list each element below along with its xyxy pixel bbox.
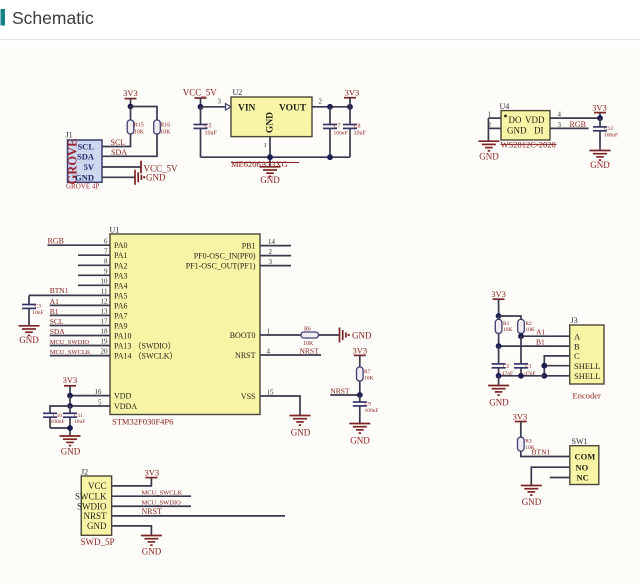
header accent bar: [1, 9, 6, 26]
svg-text:BTN1: BTN1: [50, 286, 69, 295]
svg-text:NRST: NRST: [330, 386, 350, 395]
wire pin11 BTN1: [29, 294, 110, 296]
wire R6 to ground flag: [319, 334, 340, 336]
wire pin17 SCL: [50, 325, 110, 327]
wire pin3 DI / RGB net: [550, 127, 589, 129]
wire pin20 MCU_SWCLK: [50, 355, 110, 357]
wire pin16 VDD: [70, 395, 110, 397]
svg-text:C2: C2: [503, 364, 510, 370]
power flag 3V3 (J2): [144, 467, 159, 477]
node VCC_5V/C5 junction: [198, 104, 204, 110]
power flag VCC_5V (input): [183, 87, 218, 98]
svg-text:R1: R1: [503, 321, 510, 327]
wire SHELL1 pin: [544, 365, 569, 367]
svg-text:VDD: VDD: [114, 392, 132, 401]
power flag 3V3 (pull-ups): [123, 88, 138, 99]
power flag 3V3 (U4): [592, 103, 607, 119]
capacitor C1: [514, 364, 536, 377]
svg-text:VCC: VCC: [88, 481, 107, 491]
svg-text:PA0: PA0: [114, 241, 128, 250]
node C1/rail: [518, 373, 524, 379]
ground (J2): [141, 536, 162, 557]
connector J3 body: [570, 325, 604, 384]
node GND rail / C7: [327, 154, 333, 160]
wire VOUT rail: [312, 106, 350, 108]
wire SWDIO net: [112, 505, 191, 507]
svg-text:10uF: 10uF: [354, 130, 367, 136]
svg-text:6: 6: [104, 238, 108, 246]
svg-text:STM32F030F4P6: STM32F030F4P6: [112, 417, 173, 427]
wire BTN1 net: [521, 451, 570, 456]
svg-text:MCU_SWDIO: MCU_SWDIO: [142, 500, 182, 507]
wire pin2 GND: [488, 127, 501, 129]
svg-text:J2: J2: [81, 468, 88, 477]
capacitor C12: [593, 118, 618, 150]
svg-text:GND: GND: [61, 446, 81, 456]
svg-text:GROVE 4P: GROVE 4P: [66, 182, 99, 190]
ground (encoder): [488, 386, 509, 408]
wire 5V pin: [102, 166, 141, 168]
svg-text:R7: R7: [364, 369, 371, 375]
svg-text:NRST: NRST: [142, 507, 163, 516]
wire NC stub: [550, 477, 570, 479]
svg-text:PA9: PA9: [114, 322, 128, 331]
wire 3V3 stem: [130, 99, 132, 107]
svg-text:3: 3: [558, 121, 562, 129]
svg-text:A1: A1: [536, 328, 545, 337]
svg-text:10K: 10K: [503, 327, 513, 333]
svg-text:PA6: PA6: [114, 301, 128, 310]
connector J1 body: [68, 140, 103, 182]
svg-text:GND: GND: [507, 125, 527, 135]
svg-text:10nF: 10nF: [32, 310, 43, 316]
resistor R15: [127, 120, 145, 135]
svg-text:J3: J3: [571, 316, 578, 325]
node VOUT/C7: [327, 104, 333, 110]
svg-text:4: 4: [267, 347, 271, 355]
svg-text:PA14 （SWCLK）: PA14 （SWCLK）: [114, 352, 178, 361]
svg-text:10K: 10K: [364, 375, 374, 381]
svg-text:GND: GND: [266, 112, 276, 133]
ground (VSS): [290, 416, 311, 438]
svg-text:COM: COM: [575, 452, 596, 462]
svg-text:PA4: PA4: [114, 281, 128, 290]
header divider: [0, 39, 640, 41]
svg-text:C: C: [574, 351, 580, 361]
node VDDA: [67, 403, 73, 409]
power flag 3V3 (output): [344, 87, 359, 107]
wire ground rail: [201, 156, 351, 158]
svg-text:GND: GND: [19, 335, 39, 345]
svg-text:SCL: SCL: [77, 142, 94, 152]
part label WS2812C-2020: [501, 140, 557, 150]
svg-text:MCU_SWCLK: MCU_SWCLK: [142, 490, 183, 497]
capacitor C5: [194, 107, 218, 157]
IC U2 body: [231, 97, 312, 137]
svg-text:VIN: VIN: [238, 103, 256, 113]
power flag 3V3 (SW1): [513, 411, 528, 437]
svg-text:R6: R6: [304, 327, 311, 333]
ground (C9): [349, 424, 370, 446]
svg-text:C1: C1: [525, 364, 532, 370]
svg-text:NRST: NRST: [235, 351, 256, 360]
resistor R2: [518, 319, 535, 333]
svg-text:U2: U2: [233, 88, 243, 97]
svg-text:PA10: PA10: [114, 332, 132, 341]
svg-text:3V3: 3V3: [123, 88, 138, 98]
svg-text:16: 16: [95, 388, 103, 396]
svg-text:R2: R2: [525, 321, 532, 327]
wire B1 net: [499, 333, 570, 346]
wire pin7: [78, 254, 110, 256]
node VDD: [67, 393, 73, 399]
svg-text:3V3: 3V3: [345, 87, 360, 97]
node R1/B1/C2: [496, 343, 502, 349]
wire pin9: [78, 274, 110, 276]
wire VCC to 3V3: [112, 478, 152, 486]
wire encoder ground rail: [499, 375, 545, 377]
wire BTN1 to C3: [28, 295, 30, 304]
IC U4 body: [501, 111, 550, 140]
svg-text:A1: A1: [50, 297, 59, 306]
wire VCC_5V stem: [200, 98, 202, 107]
ground (C12): [590, 151, 611, 170]
svg-text:SDA: SDA: [50, 327, 66, 336]
svg-text:J1: J1: [66, 131, 73, 140]
svg-text:R15: R15: [134, 122, 144, 128]
part label ME6206A33XG: [231, 159, 299, 169]
wire pin12 A1: [50, 304, 110, 306]
resistor R16: [154, 120, 172, 135]
svg-text:3V3: 3V3: [592, 103, 607, 113]
svg-text:VCC_5V: VCC_5V: [183, 87, 218, 97]
svg-text:B1: B1: [536, 338, 545, 347]
svg-text:3V3: 3V3: [513, 411, 528, 421]
wire C pin: [544, 356, 569, 376]
wire pin1 BOOT0: [260, 334, 301, 336]
svg-text:3: 3: [269, 258, 273, 266]
node C/SHELL1: [541, 363, 547, 369]
node R2/A1/C1: [518, 333, 524, 339]
wire NO to ground: [531, 467, 570, 485]
wire pin10: [78, 284, 110, 286]
svg-text:BOOT0: BOOT0: [230, 331, 256, 340]
ground (VDD caps): [60, 436, 81, 456]
switch SW1 body: [570, 446, 599, 485]
svg-text:GND: GND: [352, 330, 372, 340]
resistor R7: [357, 367, 374, 395]
wire GND pin (J2): [112, 526, 152, 536]
node 3V3/R15/R16 junction: [128, 104, 134, 110]
wire GND pin: [102, 176, 135, 178]
svg-text:1: 1: [264, 142, 267, 149]
wire rail to ground: [498, 376, 500, 386]
wire pin3 PF1: [260, 265, 291, 267]
svg-text:100nF: 100nF: [365, 408, 379, 414]
node cap rail: [67, 425, 73, 431]
svg-text:SWDIO: SWDIO: [77, 501, 107, 511]
ground flag GND (J1): [135, 170, 166, 185]
svg-text:PF0-OSC_IN(PF0): PF0-OSC_IN(PF0): [194, 252, 256, 261]
svg-text:VDD: VDD: [525, 115, 545, 125]
svg-text:PA13 （SWDIO）: PA13 （SWDIO）: [114, 342, 176, 351]
svg-text:VSS: VSS: [241, 392, 256, 401]
svg-text:10K: 10K: [525, 327, 535, 333]
capacitor C3: [22, 304, 44, 326]
svg-text:SHELL: SHELL: [574, 371, 600, 381]
svg-text:NRST: NRST: [83, 511, 107, 521]
wire to R15 top: [130, 107, 132, 121]
resistor R6: [301, 327, 319, 348]
wire to C10: [50, 406, 70, 413]
svg-text:GND: GND: [350, 435, 370, 445]
resistor R1: [495, 319, 512, 333]
svg-text:NO: NO: [576, 462, 589, 472]
node GND rail / U2: [267, 154, 273, 160]
wire SCL net: [102, 134, 131, 147]
ground (U2): [260, 167, 281, 185]
svg-text:RGB: RGB: [570, 120, 586, 129]
wire 3V3 to R1: [498, 316, 500, 319]
node SHELL2: [541, 373, 547, 379]
svg-text:3V3: 3V3: [491, 289, 506, 299]
svg-text:10K: 10K: [134, 129, 145, 135]
svg-text:PA5: PA5: [114, 291, 128, 300]
svg-text:BTN1: BTN1: [532, 448, 551, 457]
wire NRST net (J2): [112, 515, 285, 517]
svg-text:10: 10: [101, 278, 109, 286]
ground (C3): [19, 326, 40, 345]
svg-text:18: 18: [101, 328, 109, 336]
svg-text:GND: GND: [522, 497, 542, 507]
svg-text:2: 2: [319, 98, 323, 106]
svg-text:VOUT: VOUT: [279, 103, 307, 113]
svg-text:PA3: PA3: [114, 271, 128, 280]
svg-text:10uF: 10uF: [205, 130, 218, 136]
svg-text:19: 19: [101, 338, 109, 346]
svg-text:SCL: SCL: [111, 138, 126, 147]
svg-text:3: 3: [218, 98, 222, 106]
wire left pins to ground: [487, 118, 489, 141]
svg-text:C8: C8: [354, 124, 361, 130]
capacitor C11: [63, 406, 85, 428]
svg-text:Encoder: Encoder: [573, 391, 601, 401]
pin numbers left column: [101, 238, 109, 356]
wire pin4 NRST: [260, 354, 321, 356]
svg-text:RGB: RGB: [48, 237, 64, 246]
wire pin4 VDD: [550, 117, 600, 119]
svg-text:GND: GND: [489, 397, 509, 407]
svg-text:DO: DO: [509, 115, 522, 125]
svg-text:SDA: SDA: [77, 151, 95, 161]
svg-text:C5: C5: [205, 124, 212, 130]
svg-text:PA7: PA7: [114, 311, 128, 320]
node R7/C9/NRST: [357, 392, 363, 398]
svg-text:13: 13: [101, 308, 109, 316]
capacitor C9: [353, 395, 379, 424]
wire pin15 VSS: [260, 396, 300, 416]
pin arrow VIN: [226, 104, 232, 110]
svg-text:B1: B1: [50, 307, 59, 316]
svg-text:PA1: PA1: [114, 251, 128, 260]
power flag VCC_5V: [141, 161, 178, 174]
svg-text:B: B: [574, 341, 580, 351]
svg-text:C11: C11: [74, 413, 83, 419]
svg-text:14: 14: [268, 238, 276, 246]
svg-text:GND: GND: [75, 172, 94, 182]
node VOUT/C8/3V3: [347, 104, 353, 110]
svg-text:NRST: NRST: [300, 346, 320, 355]
svg-text:MCU_SWCLK: MCU_SWCLK: [50, 349, 91, 356]
svg-text:5: 5: [98, 398, 102, 406]
svg-text:11: 11: [101, 288, 108, 296]
wire VDD to VDDA: [69, 396, 71, 406]
wire pin2 PF0: [260, 255, 291, 257]
svg-text:GND: GND: [260, 175, 280, 185]
svg-text:10K: 10K: [160, 129, 171, 135]
svg-text:GND: GND: [479, 152, 499, 162]
svg-text:1: 1: [267, 327, 271, 335]
node VDD/C12: [597, 115, 603, 121]
svg-text:PA2: PA2: [114, 261, 128, 270]
svg-text:MCU_SWDIO: MCU_SWDIO: [50, 339, 90, 346]
power flag 3V3 (NRST): [352, 345, 367, 367]
svg-text:3V3: 3V3: [352, 345, 367, 355]
svg-text:3V3: 3V3: [144, 467, 159, 477]
wire 3V3 to R2: [499, 316, 521, 319]
wire to VIN: [201, 106, 226, 108]
svg-text:C10: C10: [53, 413, 62, 419]
pin1 marker dot: [504, 115, 507, 118]
svg-text:SWD_5P: SWD_5P: [81, 537, 115, 547]
svg-text:GND: GND: [142, 547, 162, 557]
power flag 3V3 (VDD): [63, 375, 78, 395]
wire R2 to C1: [520, 336, 522, 364]
svg-text:A: A: [574, 331, 581, 341]
svg-text:SWCLK: SWCLK: [75, 491, 107, 501]
svg-text:5V: 5V: [84, 162, 95, 172]
svg-text:GND: GND: [590, 160, 610, 170]
wire pin6 RGB: [48, 244, 111, 246]
wire pin8: [78, 264, 110, 266]
wire SDA net: [102, 134, 157, 156]
svg-text:GND: GND: [146, 172, 166, 182]
svg-text:Schematic: Schematic: [12, 8, 94, 28]
svg-text:15: 15: [267, 388, 275, 396]
svg-text:U4: U4: [500, 102, 510, 111]
node C2/rail: [496, 373, 502, 379]
node 3V3/R1/R2: [496, 313, 502, 319]
wire U2 GND stub: [269, 137, 271, 167]
power flag 3V3 (encoder): [491, 289, 506, 316]
wire NRST net to node: [330, 394, 360, 396]
svg-text:U1: U1: [110, 226, 120, 235]
svg-text:NC: NC: [577, 473, 589, 483]
IC U1 body: [110, 234, 260, 415]
wire SHELL2 pin: [544, 375, 569, 377]
resistor R3: [518, 437, 535, 451]
svg-text:SW1: SW1: [572, 437, 588, 446]
svg-text:7: 7: [104, 248, 108, 256]
wire to R16 top: [131, 107, 158, 121]
svg-text:C3: C3: [35, 304, 42, 310]
wire pin1 DO: [488, 117, 501, 119]
svg-text:17: 17: [101, 318, 109, 326]
svg-text:4: 4: [558, 111, 562, 119]
svg-text:C7: C7: [334, 124, 341, 130]
svg-text:R16: R16: [160, 122, 170, 128]
ground (U4 left): [478, 141, 499, 161]
capacitor C2: [492, 364, 514, 377]
connector J2 body: [81, 476, 111, 535]
svg-text:SHELL: SHELL: [574, 361, 600, 371]
ground flag (BOOT0): [340, 328, 372, 343]
ground (SW1): [521, 486, 542, 507]
wire pin5 VDDA: [70, 405, 110, 407]
svg-text:DI: DI: [534, 125, 544, 135]
svg-text:100nF: 100nF: [334, 130, 348, 136]
svg-text:VDDA: VDDA: [114, 402, 137, 411]
svg-text:2: 2: [269, 248, 273, 256]
wire pin19 MCU_SWDIO: [50, 345, 110, 347]
svg-text:12: 12: [101, 298, 109, 306]
wire SWCLK net: [112, 495, 191, 497]
svg-text:20: 20: [101, 348, 109, 356]
svg-text:C12: C12: [604, 126, 613, 132]
svg-text:R3: R3: [525, 439, 532, 445]
svg-text:100nF: 100nF: [604, 132, 618, 138]
wire pin18 SDA: [50, 335, 110, 337]
svg-text:GND: GND: [291, 427, 311, 437]
capacitor C10: [43, 413, 65, 428]
svg-text:PF1-OSC_OUT(PF1): PF1-OSC_OUT(PF1): [186, 262, 256, 271]
wire pin13 B1: [50, 314, 110, 316]
svg-text:8: 8: [104, 258, 108, 266]
svg-text:100nF: 100nF: [51, 419, 65, 425]
svg-text:GND: GND: [87, 521, 107, 531]
wire A1 net: [521, 333, 570, 336]
svg-text:SDA: SDA: [111, 148, 127, 157]
svg-text:1: 1: [488, 111, 492, 119]
svg-text:PB1: PB1: [242, 242, 256, 251]
svg-text:C9: C9: [365, 401, 372, 407]
wire R1 to C2: [498, 346, 500, 364]
capacitor C8: [343, 107, 367, 157]
svg-text:10uF: 10uF: [74, 419, 85, 425]
svg-text:9: 9: [104, 268, 108, 276]
svg-text:SCL: SCL: [50, 317, 64, 326]
wire cap ground rail: [50, 428, 70, 436]
wire pin14 PB1: [260, 245, 291, 247]
capacitor C7: [323, 107, 348, 157]
svg-text:3V3: 3V3: [63, 375, 78, 385]
